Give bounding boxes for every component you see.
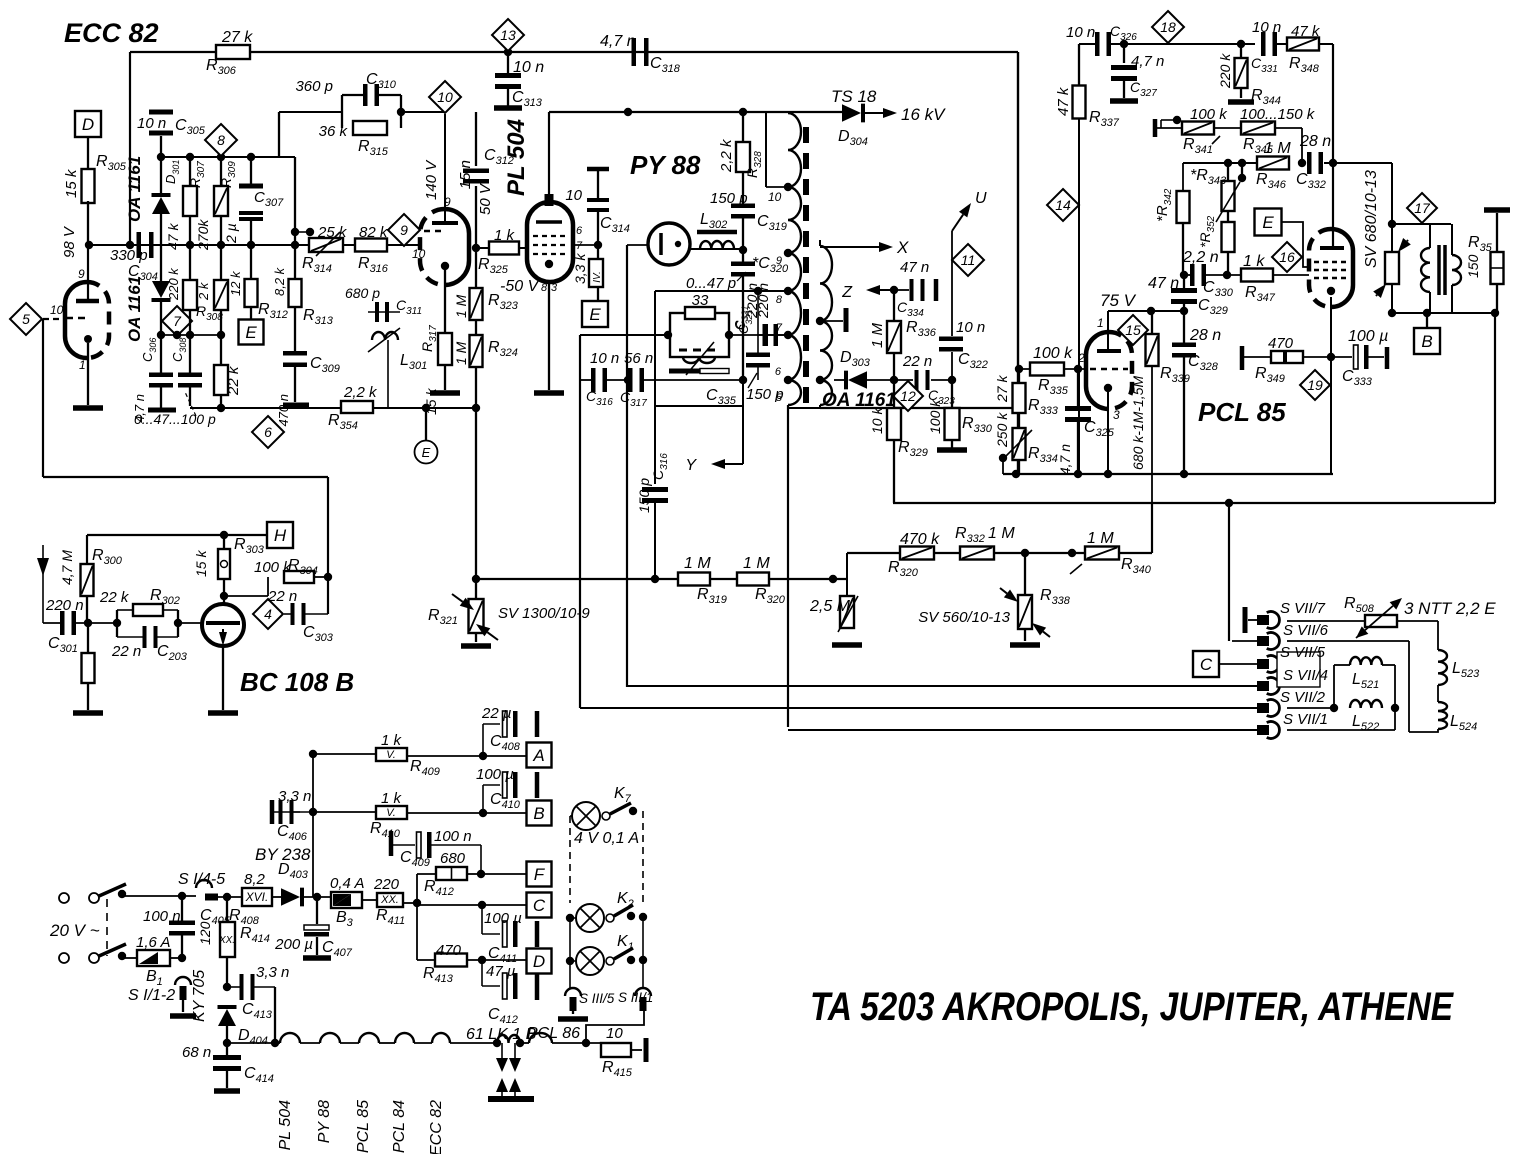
svg-text:17: 17 xyxy=(1414,200,1431,216)
svg-text:S III/5: S III/5 xyxy=(579,991,615,1006)
svg-text:330 p: 330 p xyxy=(110,247,148,264)
svg-text:3,3 n: 3,3 n xyxy=(278,788,311,805)
svg-text:S VII/4: S VII/4 xyxy=(1283,667,1328,684)
svg-text:1 k: 1 k xyxy=(381,732,403,749)
svg-text:S I/1-2: S I/1-2 xyxy=(128,987,175,1004)
svg-text:0,4 A: 0,4 A xyxy=(330,875,364,892)
svg-text:200 µ: 200 µ xyxy=(274,936,313,953)
svg-text:XVI.: XVI. xyxy=(245,890,269,904)
svg-text:ECC 82: ECC 82 xyxy=(64,18,159,48)
svg-text:B: B xyxy=(533,804,544,823)
svg-text:2,2 k: 2,2 k xyxy=(343,384,378,401)
svg-text:8,2 k: 8,2 k xyxy=(272,266,287,296)
svg-text:S VII/1: S VII/1 xyxy=(1283,711,1328,728)
svg-text:1 k: 1 k xyxy=(494,227,516,244)
svg-text:S I/4-5: S I/4-5 xyxy=(178,871,225,888)
svg-text:H: H xyxy=(274,526,287,545)
svg-text:36 k: 36 k xyxy=(319,123,349,140)
svg-text:10: 10 xyxy=(50,303,64,317)
svg-text:19: 19 xyxy=(1307,377,1323,393)
svg-text:100 k: 100 k xyxy=(254,559,292,576)
svg-text:100 n: 100 n xyxy=(434,828,472,845)
svg-text:220 n: 220 n xyxy=(45,597,84,614)
svg-text:47 k: 47 k xyxy=(1055,86,1072,116)
svg-text:100 µ: 100 µ xyxy=(484,910,522,927)
svg-text:A: A xyxy=(532,746,544,765)
svg-text:TA 5203 AKROPOLIS, JUPITER, AT: TA 5203 AKROPOLIS, JUPITER, ATHENE xyxy=(810,985,1454,1029)
svg-text:PY 88: PY 88 xyxy=(316,1100,333,1143)
svg-text:15 k: 15 k xyxy=(63,168,80,198)
svg-text:0...47...100 p: 0...47...100 p xyxy=(134,411,216,427)
svg-text:10 n: 10 n xyxy=(513,59,544,76)
svg-text:Y: Y xyxy=(685,457,697,474)
svg-text:10 n: 10 n xyxy=(956,319,985,336)
svg-text:100...150 k: 100...150 k xyxy=(1240,106,1316,123)
svg-text:28 n: 28 n xyxy=(1299,133,1331,150)
svg-text:3: 3 xyxy=(1113,408,1120,422)
svg-text:2,5 M: 2,5 M xyxy=(809,598,851,615)
svg-text:OA 1161: OA 1161 xyxy=(125,156,144,222)
svg-text:C: C xyxy=(1200,655,1213,674)
svg-text:B: B xyxy=(1421,332,1432,351)
svg-text:XX.: XX. xyxy=(380,894,399,906)
svg-text:61 LK 1 B: 61 LK 1 B xyxy=(466,1026,537,1043)
svg-text:1 M: 1 M xyxy=(1264,140,1291,157)
svg-text:13: 13 xyxy=(500,27,516,43)
svg-text:50 V: 50 V xyxy=(477,182,494,215)
svg-text:22 k: 22 k xyxy=(225,365,242,396)
svg-text:100 k: 100 k xyxy=(1033,345,1073,362)
svg-text:22 k: 22 k xyxy=(99,589,130,606)
svg-text:D: D xyxy=(533,952,545,971)
svg-text:D: D xyxy=(82,115,94,134)
svg-text:4,7 n: 4,7 n xyxy=(1057,444,1073,475)
svg-text:V.: V. xyxy=(386,749,396,761)
svg-text:4,7 n: 4,7 n xyxy=(1131,53,1164,70)
svg-text:S VII/6: S VII/6 xyxy=(1283,622,1329,639)
svg-text:33: 33 xyxy=(692,292,709,309)
svg-text:3,3 n: 3,3 n xyxy=(256,964,289,981)
svg-text:68 n: 68 n xyxy=(182,1044,211,1061)
svg-text:PY 88: PY 88 xyxy=(630,150,701,180)
svg-text:8: 8 xyxy=(776,294,783,306)
svg-text:14: 14 xyxy=(1055,197,1071,213)
svg-text:220: 220 xyxy=(373,876,400,893)
svg-text:10: 10 xyxy=(437,89,453,105)
svg-text:1: 1 xyxy=(1097,316,1104,330)
svg-text:PCL 85: PCL 85 xyxy=(1198,397,1286,427)
svg-text:470: 470 xyxy=(1268,335,1294,352)
svg-text:E: E xyxy=(245,323,257,342)
svg-text:-50 V: -50 V xyxy=(500,278,540,295)
svg-text:22 n: 22 n xyxy=(902,353,932,370)
svg-text:100 n: 100 n xyxy=(143,908,181,925)
svg-text:Z: Z xyxy=(841,284,853,301)
svg-text:100 µ: 100 µ xyxy=(476,766,514,783)
svg-text:7: 7 xyxy=(576,240,583,252)
svg-text:E: E xyxy=(589,305,601,324)
svg-text:22 µ: 22 µ xyxy=(481,705,512,722)
svg-text:250 k: 250 k xyxy=(994,412,1010,448)
svg-text:470 k: 470 k xyxy=(900,531,940,548)
svg-text:1 k: 1 k xyxy=(1243,253,1265,270)
svg-text:6: 6 xyxy=(576,225,583,237)
svg-text:3,3 k: 3,3 k xyxy=(572,253,588,284)
svg-text:IV.: IV. xyxy=(592,271,603,282)
svg-text:4,7 n: 4,7 n xyxy=(600,33,636,50)
svg-text:15 n: 15 n xyxy=(457,160,474,189)
svg-text:75 V: 75 V xyxy=(1100,291,1137,310)
svg-text:1,6 A: 1,6 A xyxy=(136,934,170,951)
svg-text:XX.: XX. xyxy=(218,935,235,946)
svg-text:100 µ: 100 µ xyxy=(1348,328,1388,345)
svg-text:X: X xyxy=(896,238,909,257)
svg-text:10 n: 10 n xyxy=(137,115,166,132)
svg-text:47 n: 47 n xyxy=(900,259,929,276)
svg-text:56 n: 56 n xyxy=(624,350,653,367)
svg-text:10: 10 xyxy=(565,187,582,204)
svg-text:15: 15 xyxy=(1125,322,1141,338)
svg-text:470 n: 470 n xyxy=(276,394,291,427)
svg-text:22 n: 22 n xyxy=(267,588,297,605)
svg-text:2,2 k: 2,2 k xyxy=(718,138,735,173)
svg-text:1 M: 1 M xyxy=(453,294,469,318)
svg-text:10: 10 xyxy=(768,190,782,204)
svg-text:100 k: 100 k xyxy=(927,399,943,434)
svg-text:PCL 86: PCL 86 xyxy=(527,1025,580,1042)
svg-text:9: 9 xyxy=(78,267,85,281)
svg-text:15 k: 15 k xyxy=(193,550,209,577)
svg-text:PCL 84: PCL 84 xyxy=(391,1100,408,1153)
svg-text:5: 5 xyxy=(776,392,783,404)
svg-text:1 M: 1 M xyxy=(453,341,469,365)
svg-text:1 M: 1 M xyxy=(869,322,886,348)
svg-text:0...47 p: 0...47 p xyxy=(686,275,736,292)
svg-text:3 NTT 2,2 E: 3 NTT 2,2 E xyxy=(1404,599,1496,618)
svg-text:1 M: 1 M xyxy=(684,555,711,572)
svg-text:6: 6 xyxy=(775,366,782,378)
svg-text:47 µ: 47 µ xyxy=(486,963,516,980)
svg-text:E: E xyxy=(1262,213,1274,232)
svg-text:18: 18 xyxy=(1160,19,1176,35)
svg-text:27 k: 27 k xyxy=(221,29,253,46)
svg-text:120: 120 xyxy=(197,921,213,945)
svg-text:8: 8 xyxy=(217,132,225,148)
svg-text:10 k: 10 k xyxy=(869,407,885,434)
svg-text:360 p: 360 p xyxy=(295,78,333,95)
svg-text:BY 238: BY 238 xyxy=(255,845,311,864)
svg-text:2: 2 xyxy=(1077,351,1085,365)
svg-text:1 M: 1 M xyxy=(743,555,770,572)
svg-text:140 V: 140 V xyxy=(423,159,440,200)
svg-text:82 k: 82 k xyxy=(359,224,389,241)
svg-text:270k: 270k xyxy=(195,219,211,251)
svg-text:47 k: 47 k xyxy=(1291,23,1321,40)
svg-text:10 n: 10 n xyxy=(1252,19,1281,36)
svg-text:5: 5 xyxy=(22,311,30,327)
svg-text:S VII/2: S VII/2 xyxy=(1280,689,1326,706)
svg-text:150: 150 xyxy=(1465,254,1481,278)
svg-text:6: 6 xyxy=(264,424,272,440)
svg-text:E: E xyxy=(422,445,431,460)
svg-text:4 V 0,1 A: 4 V 0,1 A xyxy=(574,830,639,847)
svg-text:10 n: 10 n xyxy=(590,350,619,367)
svg-text:1: 1 xyxy=(79,358,86,372)
svg-text:4,7 M: 4,7 M xyxy=(59,550,75,585)
svg-text:2 µ: 2 µ xyxy=(223,223,239,244)
svg-text:9: 9 xyxy=(400,222,408,238)
svg-text:ECC 82: ECC 82 xyxy=(428,1100,445,1154)
svg-text:11: 11 xyxy=(961,252,976,268)
svg-text:V.: V. xyxy=(386,807,396,819)
svg-text:680 k-1M-1,5M: 680 k-1M-1,5M xyxy=(1130,376,1146,470)
svg-text:22 n: 22 n xyxy=(111,643,141,660)
svg-text:SV 680/10-13: SV 680/10-13 xyxy=(1363,170,1380,268)
svg-text:7: 7 xyxy=(173,313,182,329)
svg-text:470: 470 xyxy=(436,942,462,959)
svg-text:SV 1300/10-9: SV 1300/10-9 xyxy=(498,605,590,622)
svg-text:1 k: 1 k xyxy=(381,790,403,807)
svg-text:C: C xyxy=(533,896,546,915)
svg-text:4: 4 xyxy=(264,606,272,622)
svg-text:98 V: 98 V xyxy=(61,225,78,258)
svg-text:10 n: 10 n xyxy=(1066,24,1095,41)
svg-text:3: 3 xyxy=(551,282,558,294)
svg-text:27 k: 27 k xyxy=(994,375,1010,403)
svg-text:680: 680 xyxy=(440,850,466,867)
svg-text:PL 504: PL 504 xyxy=(277,1100,294,1151)
svg-text:OA 1161: OA 1161 xyxy=(125,276,144,342)
svg-text:8: 8 xyxy=(541,282,548,294)
svg-text:47 k: 47 k xyxy=(165,223,181,250)
svg-text:2,2 n: 2,2 n xyxy=(1182,249,1219,266)
svg-text:1 M: 1 M xyxy=(1087,530,1114,547)
svg-text:8,2: 8,2 xyxy=(244,871,266,888)
svg-text:S VII/7: S VII/7 xyxy=(1280,600,1326,617)
svg-text:20 V ~: 20 V ~ xyxy=(49,921,100,940)
svg-text:16 kV: 16 kV xyxy=(901,105,946,124)
svg-text:9: 9 xyxy=(776,255,782,267)
svg-text:2 k: 2 k xyxy=(196,281,211,301)
svg-text:U: U xyxy=(975,190,987,207)
svg-text:100 k: 100 k xyxy=(1190,106,1228,123)
svg-text:16: 16 xyxy=(1279,249,1295,265)
svg-text:TS 18: TS 18 xyxy=(831,87,877,106)
svg-text:PCL 85: PCL 85 xyxy=(355,1100,372,1153)
svg-text:KY 705: KY 705 xyxy=(191,970,208,1022)
svg-text:1 M: 1 M xyxy=(988,525,1015,542)
svg-text:PL 504: PL 504 xyxy=(503,119,530,196)
svg-text:F: F xyxy=(534,865,546,884)
svg-text:680 p: 680 p xyxy=(345,285,380,301)
svg-text:S VII/5: S VII/5 xyxy=(1280,644,1326,661)
svg-text:28 n: 28 n xyxy=(1189,327,1221,344)
svg-text:BC 108 B: BC 108 B xyxy=(240,667,354,697)
svg-text:220 k: 220 k xyxy=(166,267,181,301)
svg-text:150 p: 150 p xyxy=(636,478,652,513)
svg-text:10: 10 xyxy=(606,1025,623,1042)
svg-text:12 k: 12 k xyxy=(228,270,243,296)
svg-text:S III/1: S III/1 xyxy=(618,990,653,1005)
svg-text:220 k: 220 k xyxy=(1217,53,1233,89)
svg-text:12: 12 xyxy=(900,388,916,404)
svg-text:SV 560/10-13: SV 560/10-13 xyxy=(918,609,1010,626)
